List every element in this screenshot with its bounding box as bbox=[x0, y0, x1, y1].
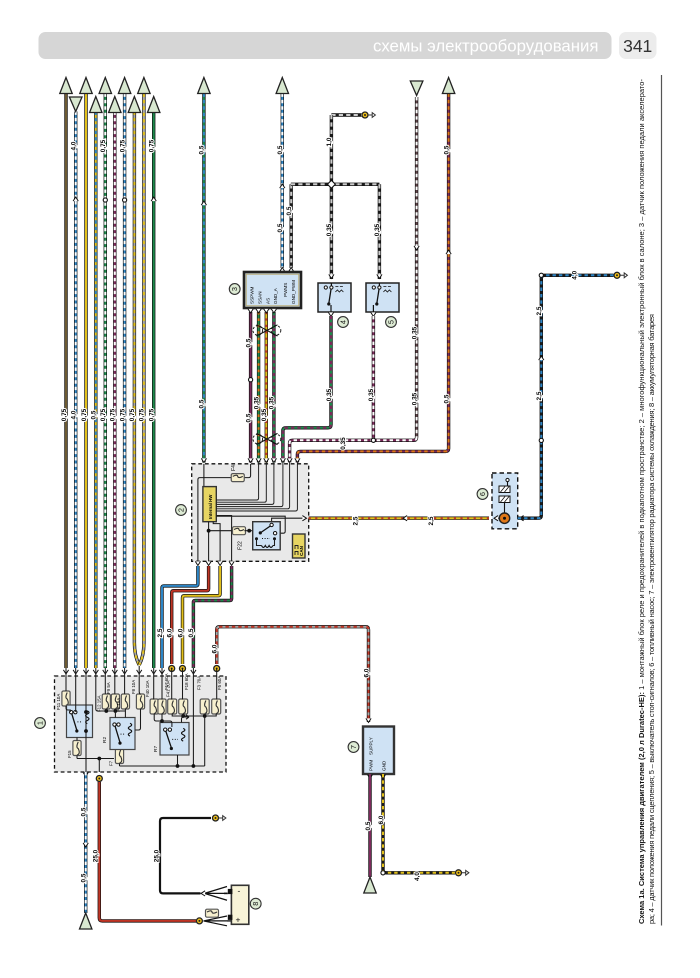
svg-text:F3 70A: F3 70A bbox=[197, 676, 202, 690]
svg-text:F15: F15 bbox=[67, 750, 72, 758]
svg-text:0,35: 0,35 bbox=[261, 408, 268, 421]
svg-text:PWMS: PWMS bbox=[283, 283, 288, 297]
svg-text:GND_A: GND_A bbox=[273, 287, 278, 304]
svg-text:2,5: 2,5 bbox=[157, 628, 164, 637]
svg-text:6,0: 6,0 bbox=[177, 628, 184, 637]
svg-text:F22: F22 bbox=[238, 541, 244, 550]
svg-text:0,35: 0,35 bbox=[411, 326, 418, 339]
svg-text:F7: F7 bbox=[109, 760, 114, 766]
svg-text:F5 60A: F5 60A bbox=[217, 676, 222, 690]
svg-text:7: 7 bbox=[349, 745, 358, 749]
svg-text:6,0: 6,0 bbox=[167, 628, 174, 637]
svg-text:0,75: 0,75 bbox=[81, 408, 88, 421]
svg-text:+: + bbox=[236, 915, 241, 925]
svg-text:4,0: 4,0 bbox=[71, 141, 78, 150]
svg-text:F11 10A: F11 10A bbox=[56, 694, 61, 710]
svg-text:0,5: 0,5 bbox=[245, 338, 252, 347]
svg-text:Схема 1а. Система управления д: Схема 1а. Система управления двигателем … bbox=[637, 79, 646, 925]
svg-text:0,35: 0,35 bbox=[253, 396, 260, 409]
svg-text:F12 15A: F12 15A bbox=[97, 695, 102, 712]
svg-text:0,5: 0,5 bbox=[199, 399, 206, 408]
svg-text:341: 341 bbox=[623, 36, 652, 56]
svg-text:4,0: 4,0 bbox=[71, 410, 78, 419]
svg-text:0,35: 0,35 bbox=[326, 388, 333, 401]
svg-text:GND: GND bbox=[382, 760, 387, 771]
svg-text:6,0: 6,0 bbox=[212, 644, 219, 653]
svg-text:8: 8 bbox=[251, 902, 260, 906]
svg-text:25,0: 25,0 bbox=[93, 849, 100, 862]
svg-text:0,35: 0,35 bbox=[269, 396, 276, 409]
svg-text:0,35: 0,35 bbox=[374, 223, 381, 236]
svg-text:0,5: 0,5 bbox=[199, 145, 206, 154]
svg-text:0,75: 0,75 bbox=[61, 408, 68, 421]
svg-text:F4: F4 bbox=[231, 465, 237, 471]
svg-text:6,0: 6,0 bbox=[363, 668, 370, 677]
svg-text:0,5: 0,5 bbox=[365, 821, 372, 830]
svg-text:0,35: 0,35 bbox=[368, 388, 375, 401]
svg-text:R2: R2 bbox=[102, 737, 108, 743]
svg-text:4,0: 4,0 bbox=[414, 872, 421, 881]
svg-text:6: 6 bbox=[478, 492, 487, 496]
svg-text:0,75: 0,75 bbox=[100, 139, 107, 152]
svg-text:0,75: 0,75 bbox=[119, 408, 126, 421]
svg-text:0,75: 0,75 bbox=[110, 408, 117, 421]
svg-text:0,5: 0,5 bbox=[188, 628, 195, 637]
svg-text:R7: R7 bbox=[153, 746, 159, 752]
svg-text:0,5: 0,5 bbox=[245, 413, 252, 422]
svg-text:0,35: 0,35 bbox=[340, 437, 347, 450]
svg-text:0,5: 0,5 bbox=[443, 145, 450, 154]
svg-text:-: - bbox=[238, 886, 241, 896]
svg-text:0,5: 0,5 bbox=[443, 394, 450, 403]
svg-text:0,35: 0,35 bbox=[326, 223, 333, 236]
svg-text:0,35: 0,35 bbox=[411, 392, 418, 405]
svg-text:0,75: 0,75 bbox=[149, 408, 156, 421]
svg-text:3: 3 bbox=[230, 287, 239, 291]
svg-text:0,75: 0,75 bbox=[139, 408, 146, 421]
svg-text:0,5: 0,5 bbox=[81, 807, 88, 816]
svg-text:PWM: PWM bbox=[369, 760, 374, 771]
svg-text:SSPWM: SSPWM bbox=[250, 286, 255, 304]
svg-text:0,5: 0,5 bbox=[286, 206, 293, 215]
svg-text:2,5: 2,5 bbox=[536, 306, 543, 315]
svg-text:2,5: 2,5 bbox=[353, 516, 360, 525]
svg-text:0,5: 0,5 bbox=[81, 873, 88, 882]
svg-text:5: 5 bbox=[387, 320, 396, 324]
svg-text:F9 5A: F9 5A bbox=[106, 682, 111, 694]
svg-text:F17 60A: F17 60A bbox=[164, 673, 169, 690]
svg-text:0,5: 0,5 bbox=[277, 223, 284, 232]
svg-text:GND_PWM: GND_PWM bbox=[291, 280, 296, 304]
svg-text:2,5: 2,5 bbox=[428, 516, 435, 525]
svg-text:1: 1 bbox=[36, 721, 45, 725]
svg-text:F40 10A: F40 10A bbox=[145, 680, 150, 697]
svg-text:F18 60A: F18 60A bbox=[184, 673, 189, 690]
svg-text:0,75: 0,75 bbox=[100, 408, 107, 421]
svg-text:4: 4 bbox=[339, 320, 348, 324]
svg-text:1,0: 1,0 bbox=[326, 137, 333, 146]
svg-text:2,5: 2,5 bbox=[536, 391, 543, 400]
svg-text:CAN: CAN bbox=[299, 545, 304, 556]
svg-text:Internal HW: Internal HW bbox=[208, 494, 213, 519]
svg-text:AS: AS bbox=[265, 298, 270, 304]
svg-text:2: 2 bbox=[177, 508, 186, 512]
svg-text:F8 10A: F8 10A bbox=[131, 680, 136, 694]
svg-text:4,0: 4,0 bbox=[572, 270, 579, 279]
svg-text:0,75: 0,75 bbox=[119, 139, 126, 152]
svg-text:6,0: 6,0 bbox=[378, 815, 385, 824]
svg-text:0,75: 0,75 bbox=[129, 408, 136, 421]
svg-text:схемы электрооборудования: схемы электрооборудования bbox=[373, 37, 599, 56]
svg-text:SSAN: SSAN bbox=[258, 291, 263, 304]
svg-text:ра; 4 – датчик положения педал: ра; 4 – датчик положения педали сцеплени… bbox=[647, 314, 656, 924]
svg-text:0,75: 0,75 bbox=[149, 139, 156, 152]
svg-text:SUPPLY: SUPPLY bbox=[369, 737, 374, 755]
svg-text:0,5: 0,5 bbox=[277, 145, 284, 154]
svg-text:25,0: 25,0 bbox=[154, 849, 161, 862]
svg-text:0,5: 0,5 bbox=[91, 410, 98, 419]
